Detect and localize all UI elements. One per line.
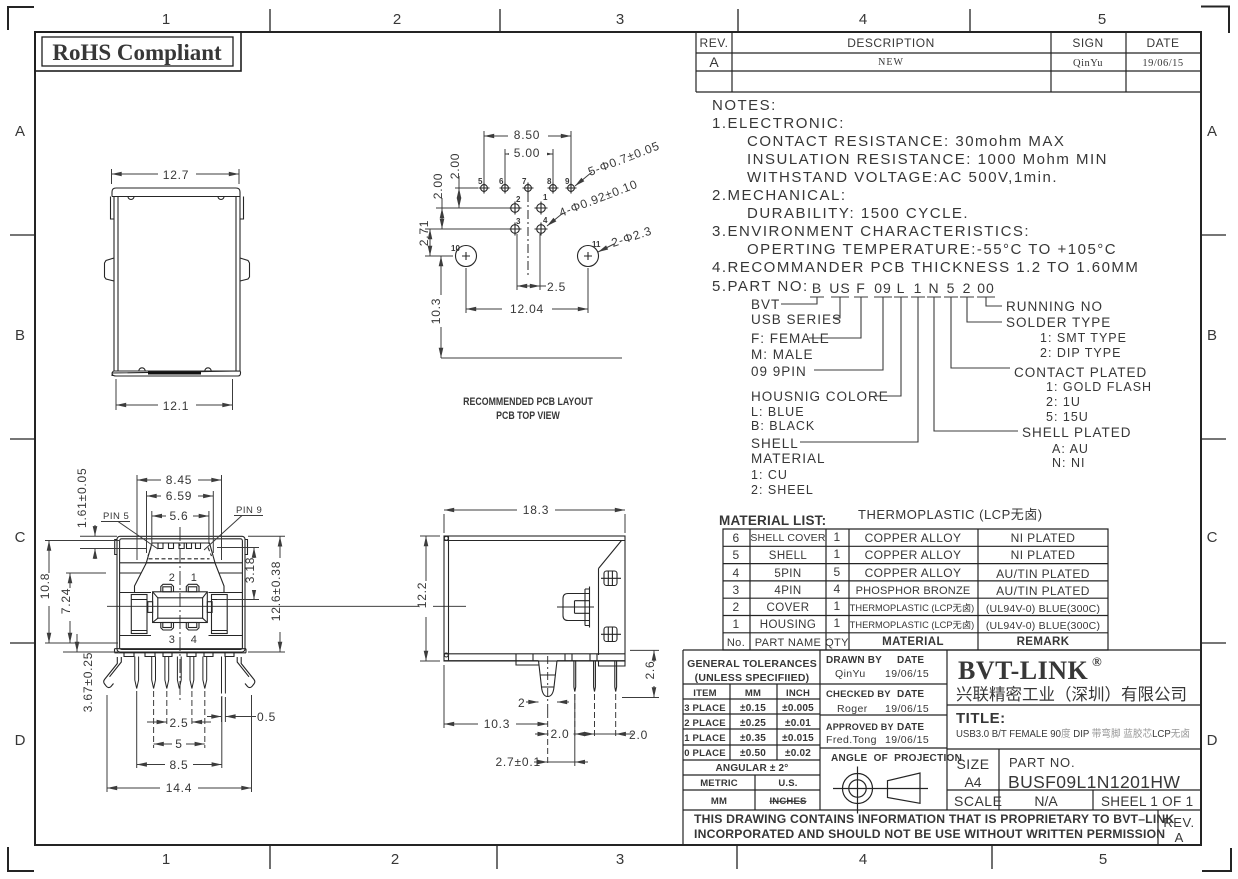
svg-text:±0.25: ±0.25 [740, 718, 766, 729]
svg-text:OPERTING TEMPERATURE:-55°C TO: OPERTING TEMPERATURE:-55°C TO +105°C [747, 241, 1117, 258]
svg-text:N: N [928, 280, 939, 296]
svg-text:(UNLESS SPECIFIIED): (UNLESS SPECIFIIED) [695, 672, 810, 684]
svg-text:QTY: QTY [825, 637, 849, 649]
svg-text:19/06/15: 19/06/15 [1142, 58, 1183, 69]
svg-text:3: 3 [169, 634, 176, 646]
svg-text:18.3: 18.3 [523, 503, 550, 517]
dim 1.61 [80, 525, 146, 559]
svg-text:2: 2 [963, 280, 972, 296]
svg-text:M: MALE: M: MALE [751, 347, 814, 362]
svg-text:DESCRIPTION: DESCRIPTION [847, 36, 935, 50]
svg-text:2: 2 [169, 572, 176, 584]
svg-text:6.59: 6.59 [166, 489, 193, 503]
svg-text:1.61±0.05: 1.61±0.05 [75, 468, 89, 529]
svg-text:2.71: 2.71 [417, 220, 431, 247]
svg-text:1: 1 [914, 280, 923, 296]
svg-text:4PIN: 4PIN [774, 585, 801, 597]
svg-text:APPROVED BY: APPROVED BY [826, 722, 894, 732]
signatures column [826, 655, 962, 764]
dim 2.0 right [582, 733, 633, 735]
dim 2.0 left [535, 733, 587, 735]
svg-text:HOUSING: HOUSING [760, 619, 816, 631]
svg-text:5: 5 [1098, 11, 1106, 28]
RoHS Compliant box [35, 32, 241, 71]
svg-text:2.MECHANICAL:: 2.MECHANICAL: [712, 187, 847, 204]
dim 12.6 [248, 536, 285, 652]
dim 2.5 front [147, 691, 211, 726]
front bent legs [104, 657, 255, 688]
svg-text:5: 5 [175, 737, 182, 751]
svg-text:INSULATION RESISTANCE: 1000 Mo: INSULATION RESISTANCE: 1000 Mohm MIN [747, 151, 1108, 168]
dim 8.50 [484, 131, 571, 183]
svg-text:7.24: 7.24 [59, 588, 73, 615]
svg-text:NOTES:: NOTES: [712, 97, 777, 114]
svg-text:PIN 9: PIN 9 [236, 505, 262, 516]
svg-text:ITEM: ITEM [693, 688, 717, 699]
center clip detail [563, 594, 590, 621]
svg-text:1: 1 [732, 617, 739, 631]
port dashed inner [149, 558, 210, 560]
svg-text:ANGLE OF PROJECTION: ANGLE OF PROJECTION [831, 753, 962, 764]
contact tabs bottom [161, 623, 174, 631]
svg-text:CHECKED BY: CHECKED BY [826, 689, 891, 700]
svg-text:SOLDER TYPE: SOLDER TYPE [1006, 315, 1111, 330]
svg-text:2.7±0.1: 2.7±0.1 [495, 755, 541, 769]
top view right mid tab [240, 258, 250, 281]
svg-text:QinYu: QinYu [1073, 58, 1103, 69]
latch hole upper [604, 571, 617, 586]
dim 10.3 side [444, 665, 548, 728]
svg-text:INCORPORATED AND SHOULD NOT BE: INCORPORATED AND SHOULD NOT BE USE WITHO… [694, 827, 1165, 841]
svg-text:REMARK: REMARK [1017, 636, 1070, 648]
svg-text:MATERIAL: MATERIAL [882, 636, 944, 648]
svg-text:N/A: N/A [1034, 793, 1058, 809]
svg-text:2.00: 2.00 [431, 173, 445, 200]
svg-text:1: GOLD FLASH: 1: GOLD FLASH [1046, 380, 1152, 394]
svg-text:(UL94V-0) BLUE(300C): (UL94V-0) BLUE(300C) [986, 603, 1100, 615]
dim 2.6 [622, 650, 659, 697]
svg-text:INCH: INCH [786, 688, 810, 699]
svg-text:DATE: DATE [897, 722, 924, 733]
svg-text:A: AU: A: AU [1052, 442, 1089, 456]
svg-text:12.1: 12.1 [163, 399, 190, 413]
top view body outline [112, 188, 240, 197]
material list table grid [723, 529, 1108, 650]
svg-text:3: 3 [616, 11, 624, 28]
peg [539, 661, 558, 697]
zone ticks top [270, 9, 970, 32]
zone ticks left [10, 235, 35, 643]
tongue [153, 592, 208, 623]
svg-text:NI PLATED: NI PLATED [1011, 548, 1076, 562]
port trapezoid [146, 543, 215, 563]
svg-text:COPPER ALLOY: COPPER ALLOY [865, 548, 962, 562]
dim 6.59 [147, 491, 214, 553]
svg-text:US: US [829, 280, 850, 296]
zone letters right [1207, 123, 1218, 749]
latch hole lower [604, 627, 617, 642]
svg-text:1: 1 [833, 530, 840, 544]
svg-text:DATE: DATE [897, 689, 924, 700]
svg-text:COVER: COVER [767, 602, 810, 614]
svg-text:4: 4 [859, 11, 867, 28]
svg-text:8.45: 8.45 [166, 473, 193, 487]
pcb mid holes (1-4) [509, 202, 548, 236]
dim 2.00 a [436, 176, 509, 208]
funnel chamfers [120, 563, 243, 593]
svg-text:MM: MM [745, 688, 761, 699]
svg-text:THERMOPLASTIC (LCP无卤): THERMOPLASTIC (LCP无卤) [850, 602, 975, 613]
svg-text:4: 4 [191, 634, 198, 646]
svg-text:CONTACT RESISTANCE: 30mohm MAX: CONTACT RESISTANCE: 30mohm MAX [747, 133, 1065, 150]
svg-text:1: 1 [162, 851, 170, 868]
svg-text:5: 5 [947, 280, 956, 296]
svg-text:COPPER ALLOY: COPPER ALLOY [865, 531, 962, 545]
part number characters row [812, 280, 995, 296]
svg-text:12.2: 12.2 [415, 582, 429, 609]
svg-text:METRIC: METRIC [700, 778, 738, 789]
svg-text:PHOSPHOR BRONZE: PHOSPHOR BRONZE [856, 585, 971, 597]
svg-text:GENERAL TOLERANCES: GENERAL TOLERANCES [687, 658, 817, 670]
svg-text:A4: A4 [964, 774, 981, 790]
svg-text:12.04: 12.04 [510, 302, 544, 316]
svg-text:ANGULAR ± 2°: ANGULAR ± 2° [715, 763, 788, 774]
top view bottom bumps [139, 368, 211, 371]
svg-text:2.00: 2.00 [448, 153, 462, 180]
dim 2 peg [526, 701, 569, 703]
dim 12.2 [420, 536, 440, 661]
svg-text:8.5: 8.5 [169, 758, 188, 772]
port teeth [158, 543, 201, 549]
svg-text:±0.015: ±0.015 [782, 733, 814, 744]
svg-text:SHELL COVER: SHELL COVER [750, 532, 826, 544]
dim 5 front [154, 691, 205, 748]
svg-text:11: 11 [592, 240, 601, 249]
svg-text:PCB TOP VIEW: PCB TOP VIEW [496, 410, 560, 422]
svg-text:C: C [1207, 529, 1218, 546]
svg-text:14.4: 14.4 [166, 781, 193, 795]
top view bottom thick segment [148, 372, 201, 375]
svg-text:SIZE: SIZE [956, 756, 989, 772]
svg-text:5: 15U: 5: 15U [1046, 410, 1089, 424]
svg-text:5.00: 5.00 [514, 146, 541, 160]
top view left mid tab [105, 258, 115, 281]
svg-text:2: 2 [518, 696, 525, 710]
svg-text:Fred.Tong: Fred.Tong [826, 734, 877, 746]
svg-text:MATERIAL: MATERIAL [751, 451, 826, 466]
svg-text:4: 4 [833, 582, 840, 596]
dim 12.1 [116, 379, 233, 410]
zone numbers bottom [162, 851, 1107, 868]
dim 2.71 [425, 229, 453, 256]
svg-text:2: 2 [516, 195, 521, 204]
dim 8.5 front [137, 691, 222, 768]
svg-text:A: A [15, 123, 25, 140]
svg-text:RECOMMENDED PCB LAYOUT: RECOMMENDED PCB LAYOUT [463, 396, 593, 408]
svg-text:4: 4 [543, 216, 548, 225]
svg-text:SCALE: SCALE [954, 793, 1002, 809]
svg-text:±0.02: ±0.02 [785, 748, 811, 759]
svg-text:09 9PIN: 09 9PIN [751, 364, 807, 379]
side body outline [444, 536, 625, 661]
svg-text:A: A [1207, 123, 1217, 140]
svg-text:PART NO.: PART NO. [1009, 755, 1075, 770]
svg-text:D: D [1207, 732, 1218, 749]
svg-text:3: 3 [732, 583, 739, 597]
right bracket [212, 595, 228, 634]
dim 2.5 pcb [517, 234, 546, 290]
svg-text:±0.01: ±0.01 [785, 718, 811, 729]
svg-text:HOUSNIG COLORE: HOUSNIG COLORE [751, 389, 889, 404]
svg-text:1: CU: 1: CU [751, 468, 788, 482]
svg-text:COPPER ALLOY: COPPER ALLOY [865, 566, 962, 580]
svg-text:5: 5 [1099, 851, 1107, 868]
svg-text:±0.15: ±0.15 [740, 703, 766, 714]
svg-text:3: 3 [516, 217, 521, 226]
side centerlines dashed [548, 656, 616, 766]
svg-text:10.3: 10.3 [429, 298, 443, 325]
svg-text:±0.005: ±0.005 [782, 703, 814, 714]
dim 3.67 [63, 634, 118, 652]
svg-text:AU/TIN PLATED: AU/TIN PLATED [996, 567, 1090, 581]
svg-text:N: NI: N: NI [1052, 456, 1085, 470]
svg-text:00: 00 [977, 280, 995, 296]
svg-text:(UL94V-0) BLUE(300C): (UL94V-0) BLUE(300C) [986, 620, 1100, 632]
svg-text:10: 10 [451, 244, 460, 253]
svg-text:4: 4 [732, 566, 739, 580]
svg-text:1: 1 [191, 572, 198, 584]
svg-text:3 PLACE: 3 PLACE [684, 703, 726, 714]
svg-text:THERMOPLASTIC (LCP无卤): THERMOPLASTIC (LCP无卤) [850, 619, 975, 630]
dim 18.3 [444, 510, 625, 533]
svg-text:1.ELECTRONIC:: 1.ELECTRONIC: [712, 115, 845, 132]
revision table [696, 32, 1201, 92]
dim 0.5 [207, 697, 256, 722]
svg-text:6: 6 [499, 177, 504, 186]
svg-text:THIS DRAWING CONTAINS INFORMAT: THIS DRAWING CONTAINS INFORMATION THAT I… [694, 812, 1174, 826]
front body top side tabs [115, 540, 248, 555]
pcb small holes row (5-9) [479, 183, 577, 194]
svg-text:2: DIP TYPE: 2: DIP TYPE [1040, 346, 1121, 360]
svg-text:RoHS Compliant: RoHS Compliant [52, 40, 222, 65]
base strip [115, 649, 247, 653]
svg-text:2.0: 2.0 [550, 727, 569, 741]
svg-text:TITLE:: TITLE: [956, 710, 1006, 727]
side thin pins [574, 661, 576, 692]
svg-text:1: 1 [833, 547, 840, 561]
svg-text:1: 1 [162, 11, 170, 28]
front centerlines [107, 605, 466, 607]
svg-text:2: SHEEL: 2: SHEEL [751, 483, 814, 497]
svg-text:1: 1 [833, 599, 840, 613]
pcb hole numbers [451, 177, 601, 253]
dim 3.18 [217, 548, 259, 600]
legal text [694, 812, 1174, 841]
svg-text:12.6±0.38: 12.6±0.38 [269, 561, 283, 622]
svg-text:SHELL: SHELL [751, 436, 799, 451]
pin number labels front [169, 572, 198, 646]
svg-text:5.PART NO:: 5.PART NO: [712, 278, 809, 295]
svg-text:F: FEMALE: F: FEMALE [751, 331, 830, 346]
title block grid [683, 650, 1201, 845]
svg-text:REV.: REV. [1163, 815, 1194, 830]
dim 10.8 [45, 541, 120, 644]
svg-text:NI PLATED: NI PLATED [1011, 531, 1076, 545]
svg-text:BVT-LINK: BVT-LINK [958, 656, 1088, 685]
front pins [135, 657, 226, 694]
top view side walls [114, 197, 240, 372]
corner bracket top-right [1201, 7, 1229, 34]
svg-text:BUSF09L1N1201HW: BUSF09L1N1201HW [1008, 772, 1180, 792]
material list rows [727, 530, 1100, 649]
svg-text:RUNNING NO: RUNNING NO [1006, 299, 1103, 314]
dim 7.24 [66, 573, 118, 643]
svg-text:D: D [15, 732, 26, 749]
svg-text:3.ENVIRONMENT CHARACTERISTICS:: 3.ENVIRONMENT CHARACTERISTICS: [712, 223, 1030, 240]
svg-text:兴联精密工业（深圳）有限公司: 兴联精密工业（深圳）有限公司 [956, 685, 1187, 704]
svg-text:U.S.: U.S. [778, 778, 797, 789]
svg-text:0.5: 0.5 [257, 710, 276, 724]
svg-text:19/06/15: 19/06/15 [885, 668, 929, 680]
front body outer shell [117, 536, 245, 652]
svg-text:8.50: 8.50 [514, 128, 541, 142]
svg-text:CONTACT PLATED: CONTACT PLATED [1014, 365, 1147, 380]
svg-text:SHELL: SHELL [769, 550, 808, 562]
svg-text:®: ® [1092, 654, 1102, 669]
third angle projection symbol [833, 767, 928, 814]
svg-text:No.: No. [727, 637, 745, 649]
dim 8.45 [137, 475, 222, 560]
svg-text:2 PLACE: 2 PLACE [684, 718, 726, 729]
svg-text:WITHSTAND VOLTAGE:AC 500V,1min: WITHSTAND VOLTAGE:AC 500V,1min. [747, 169, 1058, 186]
dim 5.00 [505, 149, 553, 183]
svg-text:USB3.0 B/T FEMALE 90度 DIP 带弯脚: USB3.0 B/T FEMALE 90度 DIP 带弯脚 蓝胶芯LCP无卤 [956, 727, 1190, 740]
svg-text:PIN 5: PIN 5 [103, 511, 129, 522]
top view bottom cap [112, 371, 241, 376]
svg-text:DATE: DATE [897, 655, 924, 666]
svg-text:THERMOPLASTIC (LCP无卤): THERMOPLASTIC (LCP无卤) [858, 507, 1043, 522]
svg-text:3.67±0.25: 3.67±0.25 [81, 652, 95, 713]
side bottom lines [444, 654, 625, 661]
dim 10.3 vertical [441, 256, 622, 358]
svg-text:5.6: 5.6 [169, 509, 188, 523]
svg-text:AU/TIN PLATED: AU/TIN PLATED [996, 584, 1090, 598]
svg-text:SHELL PLATED: SHELL PLATED [1022, 425, 1132, 440]
svg-text:12.7: 12.7 [163, 168, 190, 182]
svg-text:4.RECOMMANDER PCB THICKNESS 1.: 4.RECOMMANDER PCB THICKNESS 1.2 TO 1.60M… [712, 259, 1139, 276]
svg-text:MM: MM [711, 796, 727, 807]
svg-text:DURABILITY: 1500 CYCLE.: DURABILITY: 1500 CYCLE. [747, 205, 969, 222]
dim 14.4 front [107, 695, 252, 792]
svg-text:B: B [15, 327, 25, 344]
svg-text:B: B [1207, 327, 1217, 344]
svg-text:NEW: NEW [878, 57, 904, 68]
svg-text:19/06/15: 19/06/15 [885, 734, 929, 746]
svg-text:±0.50: ±0.50 [740, 748, 766, 759]
svg-text:5PIN: 5PIN [774, 568, 801, 580]
svg-text:B: B [812, 280, 822, 296]
notes text block [712, 97, 1139, 295]
svg-text:3.18: 3.18 [243, 557, 257, 584]
svg-text:2: 2 [393, 11, 401, 28]
svg-text:9: 9 [565, 177, 570, 186]
dim 5.6 [152, 511, 209, 544]
dim 2.00 b [425, 198, 509, 229]
svg-text:1: SMT TYPE: 1: SMT TYPE [1040, 331, 1127, 345]
svg-text:2.6: 2.6 [643, 660, 657, 679]
svg-text:2: 2 [732, 600, 739, 614]
svg-text:1: 1 [543, 193, 548, 202]
svg-text:SHEEL 1 OF 1: SHEEL 1 OF 1 [1101, 794, 1193, 809]
svg-text:8: 8 [547, 177, 552, 186]
svg-text:±0.35: ±0.35 [740, 733, 766, 744]
svg-text:4: 4 [859, 851, 867, 868]
svg-text:7: 7 [522, 177, 527, 186]
top view top bumps [128, 197, 224, 200]
svg-text:A: A [709, 54, 719, 70]
svg-text:2.0: 2.0 [629, 728, 648, 742]
svg-text:MATERIAL LIST:: MATERIAL LIST: [719, 513, 826, 528]
svg-text:09: 09 [874, 280, 892, 296]
svg-text:2: 1U: 2: 1U [1046, 395, 1081, 409]
corner bracket bottom-right [1202, 848, 1231, 871]
zone letters left [15, 123, 26, 749]
svg-text:A: A [1175, 830, 1184, 845]
svg-text:L: BLUE: L: BLUE [751, 405, 805, 419]
pcb large holes (10,11) [456, 246, 599, 267]
leader 4-d0.92 [547, 213, 563, 226]
svg-text:0 PLACE: 0 PLACE [684, 748, 726, 759]
svg-text:USB SERIES: USB SERIES [751, 312, 842, 327]
contact tabs top [161, 584, 174, 592]
svg-text:2.5: 2.5 [547, 280, 566, 294]
side top-left corner circle [444, 536, 448, 540]
svg-text:F: F [856, 280, 866, 296]
svg-text:5: 5 [478, 177, 483, 186]
svg-text:REV.: REV. [700, 36, 729, 50]
leader 5-d0.7 [575, 172, 592, 186]
svg-text:10.3: 10.3 [484, 717, 511, 731]
svg-text:3: 3 [616, 851, 624, 868]
svg-text:6: 6 [732, 531, 739, 545]
svg-text:Roger: Roger [837, 703, 868, 715]
part number left labels [751, 297, 889, 466]
svg-text:5: 5 [732, 548, 739, 562]
zone numbers top [162, 11, 1106, 28]
svg-text:B: BLACK: B: BLACK [751, 419, 815, 433]
svg-text:10.8: 10.8 [38, 573, 52, 600]
svg-text:1: 1 [833, 616, 840, 630]
svg-text:5: 5 [833, 565, 840, 579]
svg-text:19/06/15: 19/06/15 [885, 703, 929, 715]
zone ticks bottom [270, 845, 992, 869]
svg-text:L: L [897, 280, 906, 296]
svg-text:SIGN: SIGN [1072, 36, 1103, 50]
svg-text:1 PLACE: 1 PLACE [684, 733, 726, 744]
dim 12.7 [112, 169, 240, 184]
part number leader lines [781, 297, 1018, 442]
corner bracket bottom-left [8, 847, 34, 871]
leader 2-d2.3 [598, 244, 614, 252]
pcb center dashed line [527, 193, 529, 278]
left bracket [120, 593, 151, 636]
svg-text:C: C [15, 529, 26, 546]
svg-text:2: 2 [391, 851, 399, 868]
part number right labels [1006, 299, 1147, 440]
svg-text:PART NAME: PART NAME [755, 637, 822, 649]
side chamfer panel [599, 541, 622, 656]
svg-text:DRAWN BY: DRAWN BY [826, 655, 882, 666]
